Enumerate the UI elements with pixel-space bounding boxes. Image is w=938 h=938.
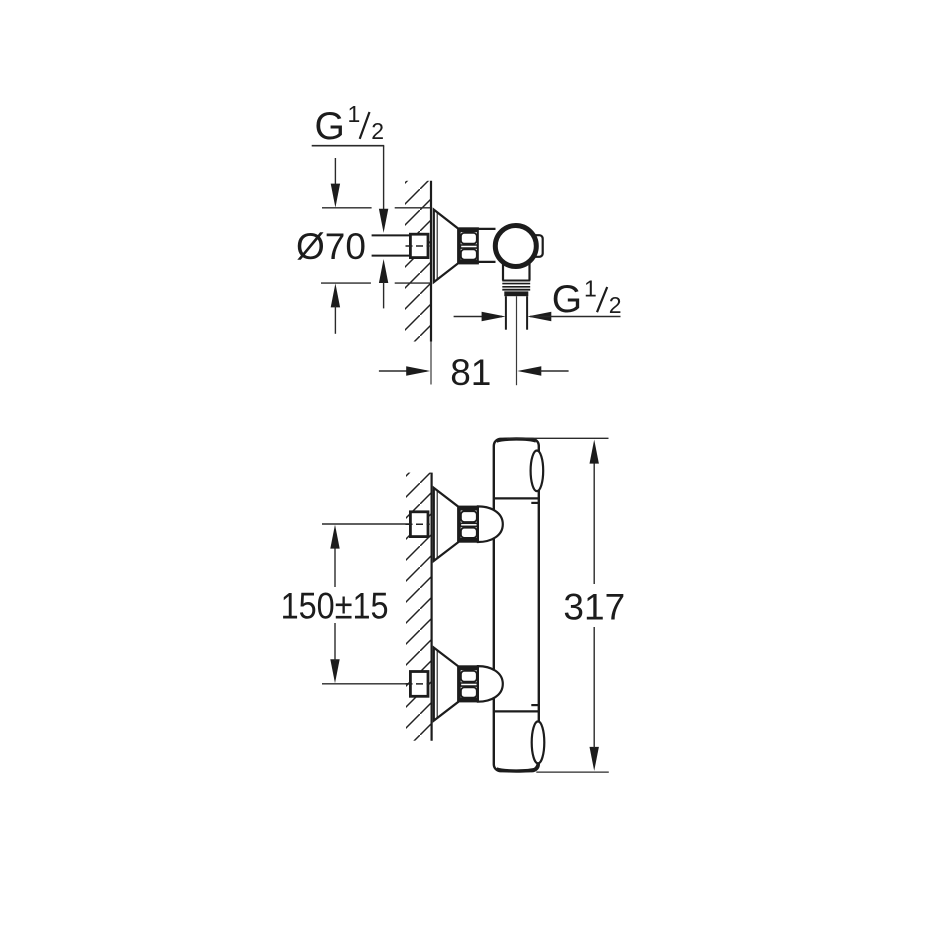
dimension 317 top extension line [507,437,609,439]
wall surface line (bottom view) [431,473,433,741]
upper escutcheon inner line [436,490,438,558]
upper dome joint [478,506,503,542]
svg-text:1: 1 [348,101,361,127]
dimension 317 line upper segment [593,462,595,584]
top end-cap ellipse [531,451,544,492]
outlet collar rings [502,280,530,282]
G1/2 outlet dimension right leader [530,316,621,318]
lower hex nut [460,666,478,701]
leader underline of G 1/2 [312,145,385,147]
svg-text:317: 317 [563,586,625,627]
outlet shoulder below valve [503,246,530,281]
G1/2 outlet left arrow [482,312,506,321]
extension line, escutcheon top (left part) [322,207,372,209]
svg-text:2: 2 [371,118,384,144]
G1/2 dimension arrow down to block top [379,209,388,233]
svg-text:G: G [552,278,582,321]
shower bar body [494,439,539,771]
svg-text:Ø70: Ø70 [296,226,366,267]
square union block on wall [410,234,428,257]
upper union block [410,512,428,537]
escutcheon cone (top view) [434,210,458,283]
svg-text:2: 2 [609,292,622,318]
extension line, escutcheon bottom (left part) [321,282,371,284]
diameter 70 arrow down to top extension line [331,184,340,208]
supply pipe top line [372,234,410,236]
outlet centerline [516,296,518,385]
dimension 81 arrow to centerline [517,366,541,375]
G1/2 outlet right arrow [527,312,551,321]
dimension 150+-15 arrow up [330,525,339,549]
dimension 150+-15 line upper segment [334,547,336,587]
lower union block [410,672,428,697]
supply pipe (white fill) [372,235,411,255]
diameter 70 dimension line lower segment [334,306,336,334]
extension line, escutcheon bottom (right part, over hatch) [395,282,431,284]
wall extension line down to 81 dimension [430,342,432,385]
dimension 317 line lower segment [593,627,595,748]
dimension 317 bottom extension line [536,771,609,773]
lower escutcheon inner line [436,650,438,718]
tick below top cap line [531,502,538,504]
bottom cap separation line [494,710,539,712]
dimension 150+-15 arrow down [330,659,339,683]
lower escutcheon cone [434,648,458,721]
G1/2 dimension line (x=383.6) upper segment [383,146,385,212]
body bottom line [478,261,496,263]
label G 1/2 (outlet) [552,275,622,321]
dimension 150+-15 line lower segment [334,623,336,661]
wall surface line (top view) [430,181,432,342]
upper mount extension line [322,523,410,525]
svg-text:G: G [315,105,345,148]
svg-text:81: 81 [450,352,491,393]
dashed centerline through block [406,245,430,247]
bar bottom dome edge [497,769,537,771]
svg-text:1: 1 [584,275,597,301]
extension line, escutcheon top (right part, over hatch) [395,207,431,209]
fraction slash of outlet G 1/2 [597,287,607,312]
outlet thread stub left line [505,296,507,330]
bar bottom-right corner [529,763,538,771]
dimension 81 right leader [540,370,569,372]
lower dashed centerline [406,683,430,685]
top cap separation line [494,497,539,499]
diameter 70 dimension line (x=335.4) upper segment [334,158,336,186]
bar top dome edge [497,439,537,441]
G1/2 dimension line lower segment [383,282,385,308]
handle cap on right of valve body [531,235,543,257]
dimension 317 arrow down [590,747,599,771]
G1/2 outlet dimension left leader [454,316,502,318]
fraction slash of top-left G 1/2 [360,112,370,139]
dimension 81 arrow to wall [406,366,430,375]
upper dashed centerline [406,523,430,525]
upper escutcheon cone [434,488,458,561]
bottom end-cap ellipse [532,721,545,763]
G1/2 dimension arrow up to block bottom [379,259,388,283]
lower dome joint [478,666,503,702]
dimension 317 arrow up [590,440,599,464]
valve body circle (bar end view) [495,226,536,267]
lower mount extension line [322,683,410,685]
outlet collar dark band [504,291,528,296]
connection hex nut (top view) [459,228,478,263]
dimension 81 left leader [379,370,427,372]
svg-text:150±15: 150±15 [281,585,389,626]
upper hex nut [460,507,478,542]
tick above bottom cap line [531,704,538,706]
cylindrical body between nut and valve (top view) [479,230,497,262]
body top line [478,228,496,230]
supply pipe bottom line [372,255,410,257]
outlet thread stub right line [526,296,528,330]
escutcheon back plate inner line [436,212,438,280]
diameter 70 arrow up to bottom extension line [331,283,340,307]
wall hatch (top view) [405,181,431,342]
wall hatch (bottom view) [406,473,432,741]
label G 1/2 (top left) [315,101,384,148]
